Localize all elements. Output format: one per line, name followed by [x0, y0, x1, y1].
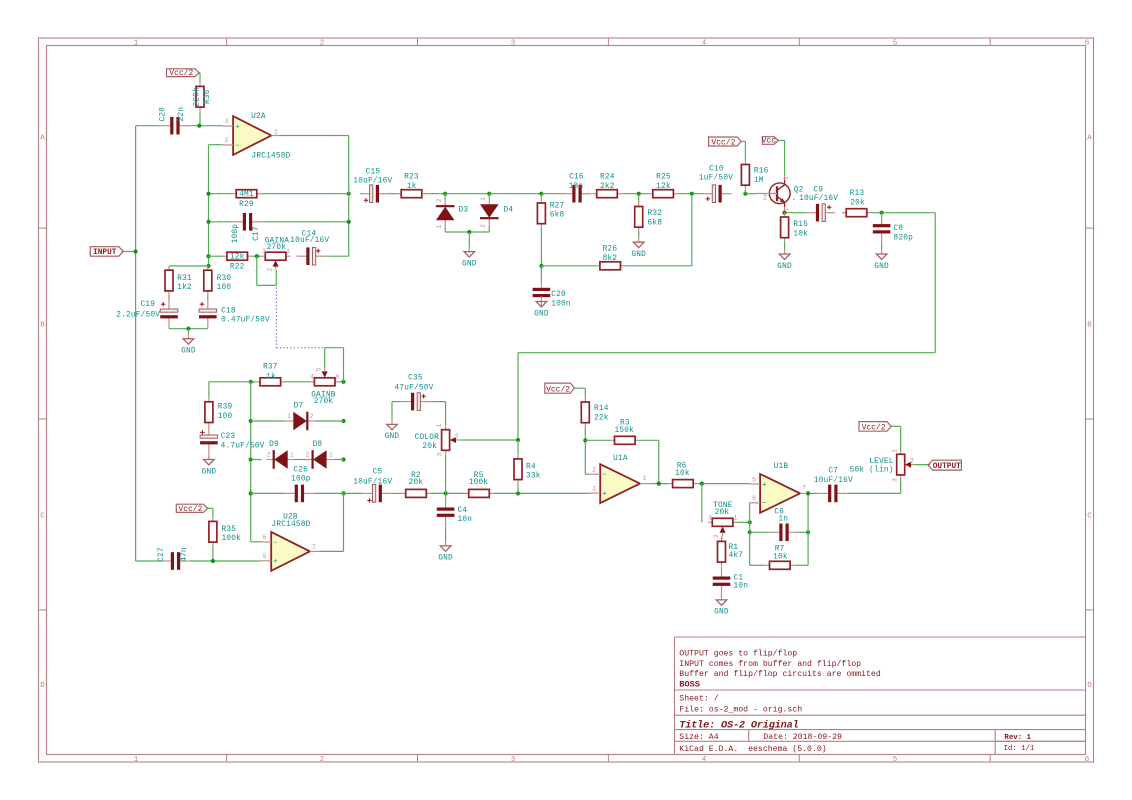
- svg-text:Sheet: /: Sheet: /: [679, 694, 718, 704]
- potentiometer GAINB 270k: [310, 381, 314, 383]
- junction: [341, 419, 345, 423]
- wire: [207, 327, 209, 330]
- junction: [206, 192, 210, 196]
- svg-text:C23: C23: [221, 433, 236, 441]
- svg-text:−: −: [602, 472, 607, 480]
- wire: [348, 136, 350, 257]
- svg-text:C17: C17: [253, 226, 261, 241]
- power flag Vcc/2 (R14): [545, 383, 575, 393]
- svg-text:C: C: [40, 513, 45, 521]
- wire: [847, 492, 900, 494]
- svg-text:JRC1458D: JRC1458D: [251, 153, 290, 161]
- svg-text:100k: 100k: [469, 479, 489, 487]
- svg-text:B: B: [1087, 322, 1092, 330]
- wire: [639, 439, 659, 441]
- wire: [199, 73, 201, 82]
- wire: [489, 193, 541, 195]
- svg-text:2: 2: [436, 198, 443, 202]
- svg-text:C5: C5: [373, 469, 383, 477]
- svg-text:Vcc: Vcc: [762, 137, 777, 146]
- wire: [169, 265, 209, 267]
- junction INPUT node: [134, 249, 138, 253]
- junction: [211, 559, 215, 563]
- resistor R26: [596, 265, 600, 267]
- wire: [749, 503, 751, 533]
- resistor R36: [199, 82, 201, 86]
- wire GAINB wiper: [324, 348, 326, 369]
- capacitor C27: [161, 560, 171, 562]
- junction: [249, 491, 253, 495]
- wire: [199, 111, 201, 125]
- svg-text:1: 1: [286, 248, 290, 255]
- junction: [487, 192, 491, 196]
- wire: [585, 473, 589, 475]
- svg-text:270k: 270k: [314, 398, 334, 406]
- svg-text:1: 1: [891, 449, 898, 453]
- diode D3: [444, 199, 446, 207]
- capacitor C18: [207, 299, 209, 309]
- svg-text:10k: 10k: [675, 470, 690, 478]
- wire C4 gnd: [445, 527, 447, 541]
- wire: [198, 72, 201, 74]
- svg-text:2: 2: [306, 452, 310, 459]
- svg-text:6: 6: [1085, 40, 1090, 48]
- wire: [741, 141, 745, 143]
- wire: [136, 560, 161, 562]
- ground (D3/D4): [468, 247, 470, 252]
- svg-text:2.2uF/50V: 2.2uF/50V: [116, 312, 160, 320]
- svg-text:C15: C15: [366, 169, 381, 177]
- wire: [784, 141, 786, 176]
- svg-text:12k: 12k: [656, 183, 671, 191]
- wire: [208, 507, 213, 509]
- wire: [444, 194, 446, 200]
- svg-text:1k: 1k: [407, 183, 417, 191]
- wire: [744, 189, 746, 193]
- wire C35 gnd branch: [391, 402, 393, 420]
- capacitor C10: [703, 193, 713, 195]
- svg-text:3: 3: [592, 485, 596, 492]
- svg-text:1: 1: [480, 197, 487, 201]
- svg-text:12k: 12k: [230, 254, 245, 262]
- svg-text:Id: 1/1: Id: 1/1: [1004, 745, 1036, 753]
- svg-text:100k: 100k: [222, 535, 242, 543]
- wire: [638, 194, 640, 203]
- capacitor C6: [770, 531, 780, 533]
- svg-text:3: 3: [436, 452, 443, 456]
- junction: [206, 254, 210, 258]
- power flag Vcc (Q2): [762, 137, 778, 145]
- junction: [583, 438, 587, 442]
- svg-text:R14: R14: [594, 405, 609, 413]
- wire: [585, 439, 610, 441]
- svg-text:20k: 20k: [422, 443, 437, 451]
- svg-text:20k: 20k: [850, 199, 865, 207]
- junction: [197, 124, 201, 128]
- svg-text:1: 1: [134, 756, 139, 764]
- hierarchical label OUTPUT: [928, 460, 961, 470]
- wire: [778, 140, 784, 142]
- svg-text:4M1: 4M1: [239, 191, 254, 199]
- svg-text:R23: R23: [404, 173, 419, 181]
- wire: [187, 329, 189, 334]
- diode D4: [488, 197, 490, 205]
- junction: [341, 457, 345, 461]
- svg-text:10uF/16V: 10uF/16V: [814, 477, 853, 485]
- svg-text:6: 6: [752, 495, 756, 502]
- wire: [445, 193, 489, 195]
- svg-text:2: 2: [713, 534, 720, 538]
- svg-text:LEVEL: LEVEL: [869, 458, 894, 466]
- wire: [881, 243, 883, 249]
- svg-text:2: 2: [310, 413, 314, 420]
- wire: [871, 212, 935, 214]
- capacitor C28: [160, 125, 170, 127]
- power flag Vcc/2 (R35): [176, 504, 207, 512]
- wire: [209, 144, 223, 146]
- wire: [744, 142, 746, 161]
- svg-text:5: 5: [893, 756, 898, 764]
- svg-text:Size: A4: Size: A4: [679, 732, 718, 742]
- svg-text:20k: 20k: [409, 479, 424, 487]
- svg-text:1: 1: [290, 452, 294, 459]
- wire: [584, 427, 586, 474]
- wire: [314, 492, 344, 494]
- svg-text:R37: R37: [263, 364, 278, 372]
- wire: [208, 454, 210, 459]
- capacitor C4: [445, 498, 447, 508]
- diode D8: [305, 459, 313, 461]
- resistor R7: [765, 564, 769, 566]
- wire: [209, 221, 234, 223]
- svg-text:18n: 18n: [569, 183, 584, 191]
- wire: [251, 459, 262, 461]
- wire: [622, 193, 649, 195]
- capacitor C1: [721, 567, 723, 577]
- wire: [575, 387, 586, 389]
- potentiometer COLOR 20k: [445, 426, 447, 430]
- svg-text:2: 2: [454, 434, 458, 442]
- wire: [250, 382, 252, 542]
- svg-text:COLOR: COLOR: [415, 434, 440, 442]
- svg-text:R3: R3: [620, 419, 630, 427]
- svg-text:6: 6: [336, 374, 340, 381]
- wire: [209, 255, 223, 257]
- wire: [785, 212, 807, 214]
- wire: [494, 492, 590, 494]
- resistor R35: [212, 517, 214, 521]
- wire: [326, 255, 349, 257]
- svg-text:4: 4: [310, 374, 314, 381]
- op-amp U1A: [600, 464, 640, 503]
- wire: [389, 193, 397, 195]
- svg-text:R4: R4: [526, 464, 536, 472]
- svg-text:U2B: U2B: [283, 513, 298, 521]
- svg-text:1: 1: [274, 129, 278, 136]
- svg-text:6k8: 6k8: [550, 212, 565, 220]
- potentiometer TONE 20k: [708, 521, 712, 523]
- junction: [657, 482, 661, 486]
- svg-text:270k: 270k: [267, 244, 287, 252]
- resistor R25: [649, 193, 653, 195]
- junction: [347, 192, 351, 196]
- wire: [212, 546, 214, 561]
- wire: [445, 455, 447, 494]
- svg-text:R7: R7: [775, 545, 785, 553]
- ground (C20): [540, 297, 542, 302]
- wire: [658, 440, 660, 483]
- resistor R37: [256, 381, 260, 383]
- wire: [517, 440, 519, 455]
- svg-text:2: 2: [267, 267, 274, 271]
- svg-text:2: 2: [267, 452, 271, 459]
- svg-text:File: os-2_mod - orig.sch: File: os-2_mod - orig.sch: [679, 704, 802, 714]
- ground (R15): [784, 249, 786, 254]
- svg-text:R13: R13: [850, 190, 865, 198]
- wire: [445, 402, 447, 426]
- junction: [539, 192, 543, 196]
- wire: [584, 388, 586, 398]
- svg-text:GND: GND: [462, 260, 477, 268]
- svg-text:100: 100: [218, 413, 233, 421]
- svg-text:1: 1: [134, 40, 139, 48]
- svg-text:OUTPUT: OUTPUT: [933, 463, 961, 471]
- svg-text:R15: R15: [793, 221, 808, 229]
- svg-text:D8: D8: [313, 441, 323, 449]
- svg-text:5: 5: [893, 40, 898, 48]
- wire: [261, 193, 349, 195]
- svg-text:U2A: U2A: [251, 113, 266, 121]
- svg-text:47n: 47n: [181, 547, 189, 562]
- resistor R22: [223, 255, 227, 257]
- wire: [281, 135, 349, 137]
- ground (C23): [208, 455, 210, 460]
- junction: [444, 491, 448, 495]
- junction: [206, 264, 210, 268]
- capacitor C8: [881, 214, 883, 224]
- wire: [881, 213, 883, 222]
- resistor R2: [402, 492, 406, 494]
- resistor R1: [721, 537, 723, 541]
- junction: [341, 380, 345, 384]
- resistor R39: [208, 398, 210, 402]
- svg-text:2: 2: [320, 40, 325, 48]
- wire: [343, 493, 345, 551]
- resistor R13: [842, 212, 846, 214]
- junction: [467, 230, 471, 234]
- wire: [252, 255, 261, 257]
- svg-text:D9: D9: [269, 441, 279, 449]
- svg-text:−: −: [273, 539, 278, 547]
- svg-text:GND: GND: [181, 348, 196, 356]
- svg-text:7: 7: [312, 544, 316, 551]
- svg-text:GND: GND: [777, 263, 792, 271]
- junction: [637, 192, 641, 196]
- svg-text:100p: 100p: [291, 476, 311, 484]
- svg-text:2: 2: [910, 458, 914, 466]
- svg-text:C8: C8: [894, 225, 904, 233]
- wire GAINA wiper loop: [256, 256, 258, 285]
- svg-text:+: +: [602, 490, 607, 498]
- svg-text:5: 5: [316, 367, 323, 371]
- wire: [262, 221, 349, 223]
- wire: [749, 532, 751, 565]
- svg-text:0.47uF/50V: 0.47uF/50V: [221, 317, 270, 325]
- junction: [880, 211, 884, 215]
- svg-text:GND: GND: [385, 433, 400, 441]
- wire: [737, 521, 750, 523]
- svg-text:Q2: Q2: [794, 187, 804, 195]
- op-amp U2A: [233, 116, 271, 155]
- svg-text:+: +: [235, 124, 240, 132]
- svg-text:8k2: 8k2: [603, 255, 618, 263]
- svg-text:10k: 10k: [773, 553, 788, 561]
- capacitor C16: [563, 193, 573, 195]
- svg-text:2: 2: [320, 756, 325, 764]
- wire: [891, 425, 901, 427]
- svg-text:1: 1: [436, 423, 443, 427]
- svg-text:R25: R25: [656, 173, 671, 181]
- resistor R30: [207, 266, 209, 270]
- svg-text:10uF/16V: 10uF/16V: [353, 479, 392, 487]
- wire: [209, 193, 233, 195]
- svg-text:2: 2: [763, 194, 767, 202]
- svg-text:Vcc/2: Vcc/2: [178, 505, 202, 514]
- junction: [806, 530, 810, 534]
- junction: [806, 491, 810, 495]
- wire: [750, 564, 766, 566]
- junction: [516, 438, 520, 442]
- diode D7: [286, 420, 294, 422]
- svg-text:5: 5: [263, 553, 267, 560]
- svg-text:1: 1: [287, 413, 291, 420]
- ground (R32): [638, 237, 640, 242]
- wire: [212, 508, 214, 517]
- svg-text:22n: 22n: [178, 107, 186, 122]
- dashed link GAINA-GAINB: [275, 288, 277, 348]
- resistor R32: [638, 202, 640, 206]
- svg-text:100: 100: [217, 284, 232, 292]
- svg-text:D4: D4: [504, 207, 514, 215]
- svg-text:20k: 20k: [715, 509, 730, 517]
- resistor R15: [784, 213, 786, 217]
- svg-text:GND: GND: [202, 468, 217, 476]
- svg-text:+: +: [273, 558, 278, 566]
- svg-text:A: A: [1087, 135, 1092, 143]
- svg-text:2: 2: [480, 224, 487, 228]
- junction: [249, 457, 253, 461]
- wire: [541, 193, 562, 195]
- svg-text:Vcc/2: Vcc/2: [169, 69, 193, 78]
- power flag Vcc/2 (R36): [167, 69, 200, 77]
- resistor R5: [465, 492, 469, 494]
- svg-text:1k2: 1k2: [177, 284, 192, 292]
- svg-text:2: 2: [592, 467, 596, 474]
- wire: [334, 459, 344, 461]
- wire: [540, 228, 542, 266]
- ground (C8): [881, 249, 883, 254]
- svg-text:D: D: [1087, 682, 1092, 690]
- wire: [208, 145, 210, 266]
- svg-text:1: 1: [436, 224, 443, 228]
- svg-text:BOSS: BOSS: [679, 680, 700, 690]
- wire: [208, 382, 210, 398]
- svg-text:INPUT: INPUT: [93, 249, 117, 257]
- junction: [347, 220, 351, 224]
- wire C1 gnd: [721, 596, 723, 600]
- wire: [426, 193, 445, 195]
- wire: [251, 492, 285, 494]
- capacitor C26: [285, 492, 295, 494]
- junction: [255, 254, 259, 258]
- svg-text:3: 3: [891, 478, 898, 482]
- power flag Vcc/2 (R16): [709, 137, 742, 146]
- svg-text:U1A: U1A: [613, 455, 628, 463]
- ground (C4): [445, 541, 447, 546]
- wire: [209, 381, 251, 383]
- ground (C35): [391, 419, 393, 424]
- svg-text:Buffer and flip/flop circuits: Buffer and flip/flop circuits are ommite…: [679, 669, 881, 679]
- junction: [748, 520, 752, 524]
- svg-text:.: .: [792, 195, 797, 203]
- junction: [748, 530, 752, 534]
- svg-text:Title: OS-2 Original: Title: OS-2 Original: [679, 719, 798, 731]
- svg-text:1: 1: [734, 514, 738, 521]
- wire: [295, 459, 306, 461]
- svg-text:C7: C7: [828, 468, 838, 476]
- svg-text:7: 7: [802, 485, 806, 492]
- svg-text:OUTPUT goes to flip/flop: OUTPUT goes to flip/flop: [679, 649, 797, 659]
- svg-text:C20: C20: [551, 291, 566, 299]
- svg-text:R24: R24: [600, 173, 615, 181]
- wire: [468, 232, 470, 247]
- svg-text:220k: 220k: [193, 87, 201, 107]
- resistor R4: [517, 455, 519, 459]
- svg-text:R27: R27: [550, 202, 565, 210]
- wire: [540, 266, 542, 282]
- transistor Q2: [769, 183, 790, 204]
- svg-text:C19: C19: [141, 301, 156, 309]
- op-amp U1B: [760, 474, 800, 513]
- capacitor C5: [363, 492, 373, 494]
- svg-text:4: 4: [702, 756, 707, 764]
- wire: [750, 531, 770, 533]
- resistor R27: [540, 199, 542, 203]
- svg-text:100p: 100p: [232, 224, 240, 244]
- title block: [675, 636, 1086, 638]
- svg-text:Rev: 1: Rev: 1: [1004, 734, 1031, 742]
- wire: [807, 493, 809, 565]
- svg-text:820p: 820p: [894, 234, 914, 242]
- wire: [691, 194, 693, 266]
- op-amp U2B: [271, 532, 310, 571]
- svg-text:R31: R31: [177, 275, 192, 283]
- capacitor C15: [360, 193, 370, 195]
- junction: [206, 220, 210, 224]
- wire: [392, 401, 401, 403]
- junction: [700, 482, 704, 486]
- svg-text:−: −: [235, 142, 240, 150]
- wire: [638, 231, 640, 237]
- svg-text:D3: D3: [459, 207, 469, 215]
- svg-text:U1B: U1B: [774, 463, 789, 471]
- svg-text:Vcc/2: Vcc/2: [546, 386, 570, 395]
- diode D9: [266, 459, 274, 461]
- svg-text:D: D: [40, 682, 45, 690]
- svg-text:C: C: [1087, 513, 1092, 521]
- svg-text:+: +: [762, 481, 767, 489]
- ground (C1): [721, 595, 723, 600]
